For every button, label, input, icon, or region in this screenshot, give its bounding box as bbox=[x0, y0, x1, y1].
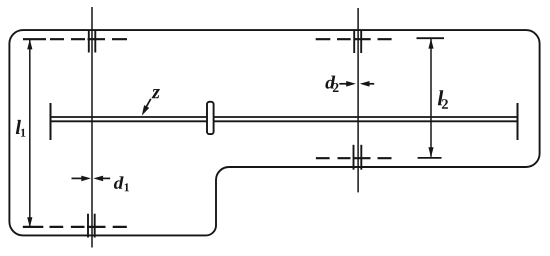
shaft II centerline bbox=[357, 8, 359, 192]
dimension d2 left arrow bbox=[346, 81, 356, 87]
shaft I centerline bbox=[91, 7, 93, 248]
dimension l1 arrow up bbox=[27, 39, 32, 49]
bearing top-right bbox=[354, 31, 361, 53]
dashed seat line top-right bbox=[316, 38, 392, 40]
bearing bottom-left bbox=[88, 214, 95, 238]
dashed seat line top-left bbox=[23, 38, 127, 40]
label z bbox=[152, 89, 160, 98]
dimension d1 left arrow bbox=[81, 176, 91, 182]
dimension d2 right arrow bbox=[360, 81, 370, 87]
dimension d2 right tail bbox=[369, 83, 374, 85]
dimension l2 line bbox=[430, 39, 432, 157]
label d2 bbox=[325, 76, 335, 89]
gear z hub bbox=[207, 102, 214, 134]
dashed seat line bottom-right bbox=[316, 157, 392, 159]
label d1 bbox=[114, 176, 124, 189]
leader line z bbox=[144, 99, 151, 111]
dimension l2 arrow down bbox=[428, 147, 433, 157]
dimension l2 arrow up bbox=[428, 39, 433, 49]
housing outline bbox=[9, 30, 539, 235]
right shaft journal bbox=[517, 103, 519, 140]
leader arrowhead z bbox=[142, 105, 149, 116]
label l1 bbox=[16, 120, 21, 134]
gear shaft lower line bbox=[51, 120, 518, 122]
dashed seat line bottom-left bbox=[23, 226, 127, 228]
dimension l1 arrow down bbox=[27, 217, 32, 227]
dimension l2 tick top bbox=[417, 37, 445, 39]
left shaft journal bbox=[50, 103, 52, 140]
label l2 bbox=[438, 90, 444, 105]
bearing top-left bbox=[89, 31, 96, 53]
dimension d2 left tail bbox=[339, 83, 347, 85]
dimension l1 line bbox=[29, 40, 31, 226]
dimension d1 right tail bbox=[103, 177, 110, 179]
bearing bottom-right bbox=[354, 145, 362, 170]
dimension d1 left tail bbox=[72, 177, 83, 179]
dimension l2 tick bottom bbox=[418, 157, 442, 159]
dimension d1 right arrow bbox=[93, 176, 103, 182]
gear shaft upper line bbox=[51, 116, 518, 118]
